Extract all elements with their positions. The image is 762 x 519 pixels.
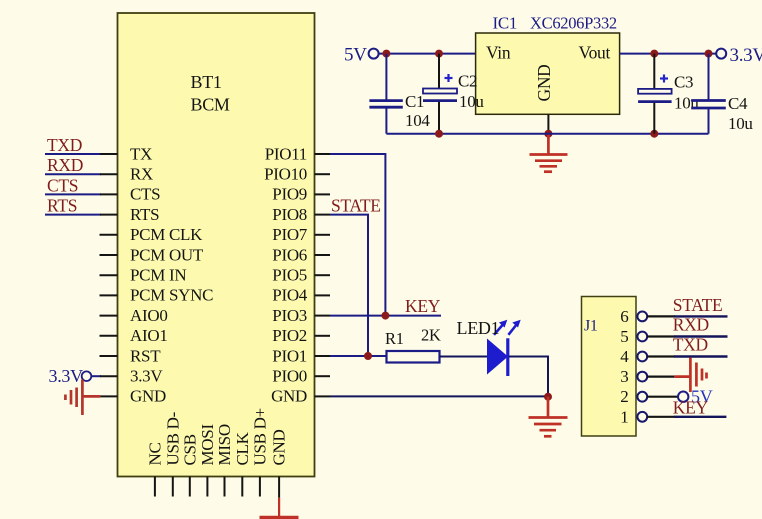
capacitor C4 <box>691 54 726 134</box>
svg-text:C2: C2 <box>458 72 477 91</box>
svg-text:2K: 2K <box>421 326 441 345</box>
wire RTS to RTS pin <box>45 214 118 216</box>
LED1 symbol <box>487 320 521 376</box>
svg-text:PIO8: PIO8 <box>272 205 307 224</box>
value 2K <box>421 326 441 345</box>
svg-text:PCM IN: PCM IN <box>130 266 186 285</box>
svg-text:RST: RST <box>130 346 161 365</box>
net label KEY (J1) <box>673 398 709 418</box>
svg-text:10u: 10u <box>459 92 484 111</box>
J1 pin circles <box>637 312 647 422</box>
wire J1 pin4 TXD <box>647 355 728 357</box>
svg-text:1: 1 <box>620 407 628 426</box>
svg-text:RTS: RTS <box>130 205 159 224</box>
svg-text:5: 5 <box>620 327 628 346</box>
BT1 bottom pin names (rotated) <box>145 408 288 465</box>
voltage regulator IC1 body <box>476 33 620 114</box>
svg-text:TXD: TXD <box>673 334 708 354</box>
svg-text:5V: 5V <box>344 44 367 65</box>
svg-text:C1: C1 <box>405 92 424 111</box>
junction C3 bottom <box>650 130 658 138</box>
IC1 GND pin <box>547 114 549 133</box>
capacitor C1 <box>369 54 402 134</box>
wire BT1 bottom GND pin (red) <box>278 498 280 517</box>
svg-text:PIO6: PIO6 <box>272 245 307 264</box>
svg-text:NC: NC <box>145 442 164 465</box>
svg-text:GND: GND <box>271 387 307 406</box>
ground symbol (below IC1) <box>530 134 568 172</box>
wire RXD to RX pin <box>45 173 118 175</box>
svg-text:PIO7: PIO7 <box>272 225 307 244</box>
power terminal 3.3V (left) <box>49 366 92 386</box>
svg-text:PCM SYNC: PCM SYNC <box>130 286 213 305</box>
wire ground rail (bottom) <box>386 133 708 135</box>
value 10u <box>459 92 484 111</box>
svg-text:C4: C4 <box>728 94 748 113</box>
connector J1 body <box>582 297 637 437</box>
svg-text:TX: TX <box>130 144 152 163</box>
label R1 <box>385 329 404 348</box>
label C1 <box>405 92 424 111</box>
BT1 right pin names <box>264 144 308 405</box>
ground symbol (J1 pin3, sideways) <box>674 358 706 393</box>
svg-text:J1: J1 <box>584 318 598 335</box>
wire Vout rail to 3.3V <box>620 53 717 55</box>
net label RTS <box>47 196 77 216</box>
junction 5V/C1 <box>382 50 390 58</box>
BT1 bottom pin stubs <box>155 477 279 498</box>
svg-text:10u: 10u <box>728 114 753 133</box>
net label TXD <box>47 135 82 155</box>
IC BT1 (BCM module) body <box>118 13 315 477</box>
ground symbol (left, sideways) <box>65 380 100 416</box>
value 10u <box>674 94 699 113</box>
svg-text:10u: 10u <box>674 94 699 113</box>
svg-text:3.3V: 3.3V <box>130 367 163 386</box>
svg-text:GND: GND <box>270 430 289 466</box>
net label STATE (at PIO8) <box>331 196 381 216</box>
BT1 right short pin stubs <box>315 154 330 396</box>
svg-text:XC6206P332: XC6206P332 <box>530 14 617 33</box>
wire TXD to TX pin <box>45 153 118 155</box>
svg-text:PIO9: PIO9 <box>272 185 307 204</box>
svg-text:PIO10: PIO10 <box>264 165 307 184</box>
svg-text:PIO0: PIO0 <box>272 367 307 386</box>
wire R1 to LED1 anode <box>440 356 489 358</box>
net label RXD (J1) <box>673 315 709 335</box>
wire GND left pin stub <box>100 395 117 397</box>
junction GND/LED <box>544 393 552 401</box>
svg-text:RXD: RXD <box>673 315 709 335</box>
value 10u <box>728 114 753 133</box>
net label RXD <box>47 155 83 175</box>
label C3 <box>674 73 693 92</box>
svg-text:STATE: STATE <box>673 295 723 315</box>
net label TXD (J1) <box>673 334 708 354</box>
capacitor C2 (polarized) <box>423 54 457 134</box>
label C4 <box>728 94 748 113</box>
svg-text:PCM OUT: PCM OUT <box>130 245 204 264</box>
svg-text:3.3V: 3.3V <box>49 366 84 386</box>
svg-text:LED1: LED1 <box>457 318 500 338</box>
wire PIO1 to R1 <box>330 355 387 357</box>
svg-text:PIO1: PIO1 <box>272 346 307 365</box>
wire BT1 GND to LED ground <box>330 395 548 397</box>
label IC1 <box>493 14 518 33</box>
svg-text:Vout: Vout <box>579 43 611 63</box>
svg-text:BCM: BCM <box>191 95 230 115</box>
svg-text:CTS: CTS <box>47 175 78 195</box>
wire CTS to CTS pin <box>45 193 118 195</box>
wire J1 pin5 RXD <box>647 335 728 337</box>
svg-text:104: 104 <box>405 111 430 130</box>
BT1 left pin names <box>130 144 213 405</box>
wire J1 pin1 KEY <box>647 416 727 418</box>
svg-text:PCM CLK: PCM CLK <box>130 225 203 244</box>
wire J1 pin3 to ground <box>647 376 675 378</box>
wire 5V rail to Vin <box>379 53 476 55</box>
junction Vout/C4 <box>705 50 713 58</box>
svg-text:6: 6 <box>620 307 628 326</box>
svg-text:AIO0: AIO0 <box>130 306 168 325</box>
wire PIO11 (right + down to PIO3) <box>330 154 385 316</box>
label LED1 <box>457 318 500 338</box>
junction Vout/C3 <box>650 50 658 58</box>
svg-text:RXD: RXD <box>47 155 83 175</box>
wire J1 pin2 to 5V <box>647 396 678 398</box>
label J1 <box>584 318 598 335</box>
net label CTS <box>47 175 78 195</box>
svg-text:PIO5: PIO5 <box>272 266 307 285</box>
wire 3.3V to pin <box>91 375 117 377</box>
wire KEY (PIO3 row) <box>330 315 441 317</box>
svg-text:R1: R1 <box>385 329 404 348</box>
junction PIO11/PIO3 <box>381 312 389 320</box>
ground symbol (below LED) <box>529 397 568 437</box>
capacitor C3 (polarized) <box>638 54 672 134</box>
junction STATE/PIO1 <box>364 352 372 360</box>
junction C2 bottom <box>435 130 443 138</box>
value 104 <box>405 111 430 130</box>
svg-text:PIO2: PIO2 <box>272 326 307 345</box>
svg-text:2: 2 <box>620 387 628 406</box>
ground symbol (bottom, clipped) <box>260 516 299 519</box>
net label STATE (J1) <box>673 295 723 315</box>
wire LED1 cathode to ground <box>509 357 548 397</box>
svg-text:AIO1: AIO1 <box>130 326 168 345</box>
svg-text:C3: C3 <box>674 73 693 92</box>
power terminal 3.3V (top right) <box>716 45 762 66</box>
svg-text:4: 4 <box>620 347 629 366</box>
svg-text:3: 3 <box>620 367 628 386</box>
power terminal 5V (J1 pin2) <box>678 387 713 407</box>
junction 5V/C2 <box>435 50 443 58</box>
net label KEY (at PIO3) <box>405 296 441 316</box>
J1 pin numbers <box>620 307 629 426</box>
label C2 <box>458 72 477 91</box>
svg-text:GND: GND <box>534 64 554 101</box>
svg-text:PIO4: PIO4 <box>272 286 307 305</box>
svg-text:CTS: CTS <box>130 185 160 204</box>
svg-text:RTS: RTS <box>47 196 77 216</box>
wire J1 pin6 STATE <box>647 315 728 317</box>
svg-text:USB D+: USB D+ <box>250 408 269 465</box>
junction GND rail <box>544 130 552 138</box>
svg-text:IC1: IC1 <box>493 14 518 33</box>
svg-text:STATE: STATE <box>331 196 381 216</box>
svg-text:KEY: KEY <box>673 398 709 418</box>
svg-text:MISO: MISO <box>215 424 234 465</box>
svg-text:PIO11: PIO11 <box>265 144 307 163</box>
svg-text:CLK: CLK <box>233 431 252 465</box>
svg-text:PIO3: PIO3 <box>272 306 307 325</box>
svg-text:GND: GND <box>130 387 166 406</box>
svg-text:Vin: Vin <box>486 43 511 63</box>
BT1 middle-left pin stubs (PCM CLK..RST) <box>100 235 118 356</box>
svg-text:3.3V: 3.3V <box>730 45 762 66</box>
value XC6206P332 <box>530 14 617 33</box>
resistor R1 <box>387 351 440 363</box>
svg-text:RX: RX <box>130 165 153 184</box>
wire STATE (PIO8 right + down to PIO1) <box>330 215 368 356</box>
svg-text:KEY: KEY <box>405 296 441 316</box>
power terminal 5V (top) <box>344 44 379 65</box>
svg-text:CSB: CSB <box>180 434 199 465</box>
svg-text:BT1: BT1 <box>191 72 222 92</box>
svg-text:TXD: TXD <box>47 135 82 155</box>
